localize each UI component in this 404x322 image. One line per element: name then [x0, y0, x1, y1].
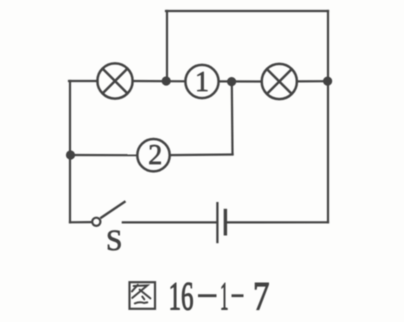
node dot junction C (327.5,81)	[323, 77, 332, 86]
node dot junction A (166,81)	[162, 76, 171, 85]
caption text 16-1-7	[169, 274, 270, 319]
svg-text:2: 2	[148, 140, 162, 171]
node dot junction B (231.5,81.5)	[227, 77, 236, 86]
wire right vertical	[327, 11, 329, 222]
wire row2 left segment	[69, 80, 98, 82]
wire row3 left segment	[70, 154, 137, 156]
wire middle vertical (node B to row3)	[231, 82, 234, 154]
wire row4 left-to-switch	[70, 221, 91, 223]
wire left vertical	[69, 81, 71, 222]
wire row2 lamp2-to-right	[297, 80, 328, 82]
wire row4 battery-to-right	[227, 221, 328, 223]
svg-text:7: 7	[253, 274, 270, 319]
wire row2 lamp1-to-meter1	[133, 80, 186, 83]
wire row4 switch-to-battery	[123, 221, 216, 223]
wire row2 meter1-to-lamp2	[219, 80, 262, 82]
wire top-left vertical	[166, 11, 168, 81]
svg-text:1: 1	[195, 67, 209, 98]
caption character 图 (box)	[130, 282, 156, 309]
svg-text:1: 1	[220, 274, 229, 319]
switch S	[92, 201, 125, 226]
wire top horizontal	[166, 10, 328, 12]
node dot junction D (70.5,155)	[66, 150, 75, 159]
caption character 图 (inner strokes)	[132, 285, 151, 304]
svg-text:S: S	[106, 225, 122, 257]
battery B1 long plate	[216, 202, 218, 243]
wire row3 right segment	[170, 153, 233, 156]
meter U1 (ammeter 1)	[185, 65, 218, 98]
svg-text:16: 16	[169, 274, 194, 319]
lamp L2	[262, 64, 297, 99]
lamp L1	[97, 63, 132, 98]
battery B1 short plate	[224, 209, 227, 236]
meter U2 (ammeter 2)	[137, 139, 169, 171]
